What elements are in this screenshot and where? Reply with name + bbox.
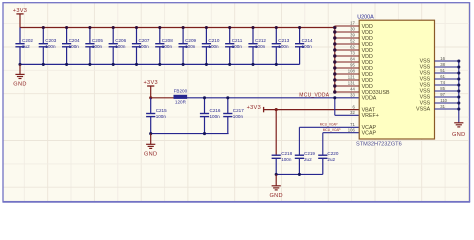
svg-text:C217: C217 bbox=[233, 108, 244, 113]
svg-text:C218: C218 bbox=[281, 151, 292, 156]
svg-text:MCU_VCAP: MCU_VCAP bbox=[320, 123, 338, 127]
svg-text:33: 33 bbox=[350, 92, 355, 97]
svg-text:16: 16 bbox=[440, 56, 445, 61]
svg-text:100n: 100n bbox=[210, 114, 221, 119]
svg-text:+3V3: +3V3 bbox=[13, 8, 27, 14]
svg-text:C209: C209 bbox=[185, 38, 196, 43]
svg-text:2u2: 2u2 bbox=[22, 44, 30, 49]
svg-text:62: 62 bbox=[350, 45, 355, 50]
svg-text:100n: 100n bbox=[139, 44, 150, 49]
svg-text:2u2: 2u2 bbox=[304, 157, 312, 162]
svg-text:VCAP: VCAP bbox=[362, 131, 377, 137]
svg-text:100n: 100n bbox=[208, 44, 219, 49]
svg-text:100n: 100n bbox=[255, 44, 266, 49]
svg-text:+3V3: +3V3 bbox=[247, 105, 261, 111]
svg-text:100n: 100n bbox=[92, 44, 103, 49]
svg-text:U200A: U200A bbox=[357, 14, 374, 20]
svg-text:97: 97 bbox=[440, 92, 445, 97]
svg-text:30: 30 bbox=[350, 27, 355, 32]
svg-text:C205: C205 bbox=[92, 38, 103, 43]
svg-text:VDDA: VDDA bbox=[362, 96, 377, 102]
svg-text:100n: 100n bbox=[115, 44, 126, 49]
svg-text:FB200: FB200 bbox=[174, 89, 188, 94]
svg-text:121: 121 bbox=[348, 75, 356, 80]
svg-text:100n: 100n bbox=[232, 44, 243, 49]
svg-text:110: 110 bbox=[440, 98, 447, 103]
svg-text:39: 39 bbox=[350, 33, 355, 38]
svg-text:GND: GND bbox=[13, 82, 26, 88]
svg-text:100n: 100n bbox=[45, 44, 56, 49]
svg-text:MCU_VCAP: MCU_VCAP bbox=[323, 128, 341, 132]
svg-text:C208: C208 bbox=[162, 38, 173, 43]
svg-text:52: 52 bbox=[350, 39, 355, 44]
svg-text:C203: C203 bbox=[45, 38, 56, 43]
svg-text:71: 71 bbox=[350, 122, 355, 127]
svg-text:C214: C214 bbox=[302, 38, 313, 43]
svg-text:GND: GND bbox=[452, 132, 465, 138]
svg-text:STM32H723ZGT6: STM32H723ZGT6 bbox=[356, 142, 402, 148]
svg-text:100n: 100n bbox=[278, 44, 289, 49]
svg-text:84: 84 bbox=[350, 57, 355, 62]
svg-text:100n: 100n bbox=[185, 44, 196, 49]
svg-text:C206: C206 bbox=[115, 38, 126, 43]
svg-text:100n: 100n bbox=[233, 114, 244, 119]
svg-text:100n: 100n bbox=[302, 44, 313, 49]
svg-text:C202: C202 bbox=[22, 38, 33, 43]
svg-text:106: 106 bbox=[348, 127, 356, 132]
svg-text:MCU_VDDA: MCU_VDDA bbox=[299, 92, 329, 98]
svg-text:C216: C216 bbox=[210, 108, 221, 113]
svg-text:73: 73 bbox=[350, 51, 355, 56]
svg-text:17: 17 bbox=[350, 21, 355, 26]
svg-text:32: 32 bbox=[350, 110, 355, 115]
svg-text:GND: GND bbox=[269, 193, 282, 199]
svg-text:44: 44 bbox=[350, 87, 355, 92]
svg-text:120R: 120R bbox=[175, 100, 187, 105]
svg-text:95: 95 bbox=[350, 63, 355, 68]
svg-text:C220: C220 bbox=[327, 151, 338, 156]
svg-text:GND: GND bbox=[144, 152, 157, 158]
svg-text:VSSA: VSSA bbox=[416, 107, 431, 113]
svg-text:100n: 100n bbox=[281, 157, 292, 162]
svg-text:C212: C212 bbox=[255, 38, 266, 43]
svg-text:74: 74 bbox=[440, 80, 445, 85]
svg-text:108: 108 bbox=[348, 69, 356, 74]
svg-text:100n: 100n bbox=[156, 114, 167, 119]
svg-text:C210: C210 bbox=[208, 38, 219, 43]
svg-text:+3V3: +3V3 bbox=[143, 80, 157, 86]
svg-text:C215: C215 bbox=[156, 108, 167, 113]
svg-text:C204: C204 bbox=[69, 38, 80, 43]
svg-text:61: 61 bbox=[440, 74, 445, 79]
svg-text:100n: 100n bbox=[162, 44, 173, 49]
svg-text:C207: C207 bbox=[139, 38, 150, 43]
svg-text:51: 51 bbox=[440, 68, 445, 73]
svg-text:100n: 100n bbox=[69, 44, 80, 49]
svg-text:2u2: 2u2 bbox=[327, 157, 335, 162]
svg-text:C211: C211 bbox=[232, 38, 243, 43]
svg-text:131: 131 bbox=[348, 81, 356, 86]
svg-text:VREF+: VREF+ bbox=[362, 113, 379, 119]
svg-text:85: 85 bbox=[440, 86, 445, 91]
svg-text:31: 31 bbox=[440, 104, 445, 109]
svg-text:C213: C213 bbox=[278, 38, 289, 43]
svg-text:38: 38 bbox=[440, 62, 445, 67]
svg-text:C219: C219 bbox=[304, 151, 315, 156]
